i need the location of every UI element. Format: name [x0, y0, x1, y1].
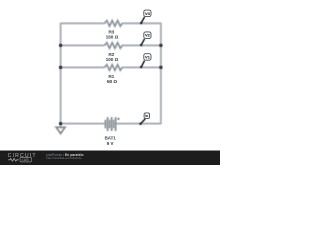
svg-text:BAT1: BAT1 [105, 136, 117, 141]
battery plus sign [117, 118, 119, 120]
svg-text:50 Ω: 50 Ω [107, 79, 117, 84]
wire bottom right segment [116, 123, 162, 125]
node left row2 junction [59, 44, 62, 47]
svg-text:V1: V1 [145, 54, 151, 59]
wire top row left segment [60, 22, 105, 24]
probe halo [141, 17, 146, 124]
wire soft halo [56, 21, 161, 134]
ammeter probe In [139, 113, 149, 125]
node right row3 junction [159, 66, 162, 69]
node left row3 junction [59, 66, 62, 69]
voltmeter probe V1 [140, 54, 151, 68]
wire row3 right segment [122, 66, 161, 68]
svg-text:In: In [145, 114, 148, 118]
svg-text:9 V: 9 V [107, 141, 114, 146]
watermark logo LAB [20, 157, 32, 162]
voltmeter probe V3 [140, 10, 151, 24]
resistor R3 zigzag [105, 21, 123, 27]
wire row3 left segment [60, 66, 105, 68]
wire row2 left segment [60, 44, 105, 46]
voltmeter probe V2 [140, 32, 151, 46]
node right row2 junction [159, 44, 162, 47]
ground triangle [56, 127, 65, 133]
svg-text:http://circuitlab.com/c6sd14e: http://circuitlab.com/c6sd14e [46, 156, 82, 160]
wire left vertical [60, 23, 62, 123]
watermark bar [0, 151, 220, 166]
watermark logo zigzag [8, 159, 18, 162]
node ground junction [59, 122, 62, 125]
svg-text:LAB: LAB [22, 158, 30, 162]
svg-text:100 Ω: 100 Ω [106, 57, 119, 62]
battery BAT1 plates [106, 117, 116, 131]
wire row2 right segment [122, 44, 161, 46]
wire bottom left segment [60, 123, 105, 125]
svg-text:V3: V3 [145, 11, 151, 16]
svg-text:150 Ω: 150 Ω [106, 35, 119, 40]
ground stub [60, 124, 62, 128]
svg-text:V2: V2 [145, 33, 151, 38]
wire right vertical [160, 23, 162, 123]
resistor R2 zigzag [105, 43, 123, 49]
resistor R1 zigzag [105, 65, 123, 71]
wire top row right segment [122, 22, 161, 24]
